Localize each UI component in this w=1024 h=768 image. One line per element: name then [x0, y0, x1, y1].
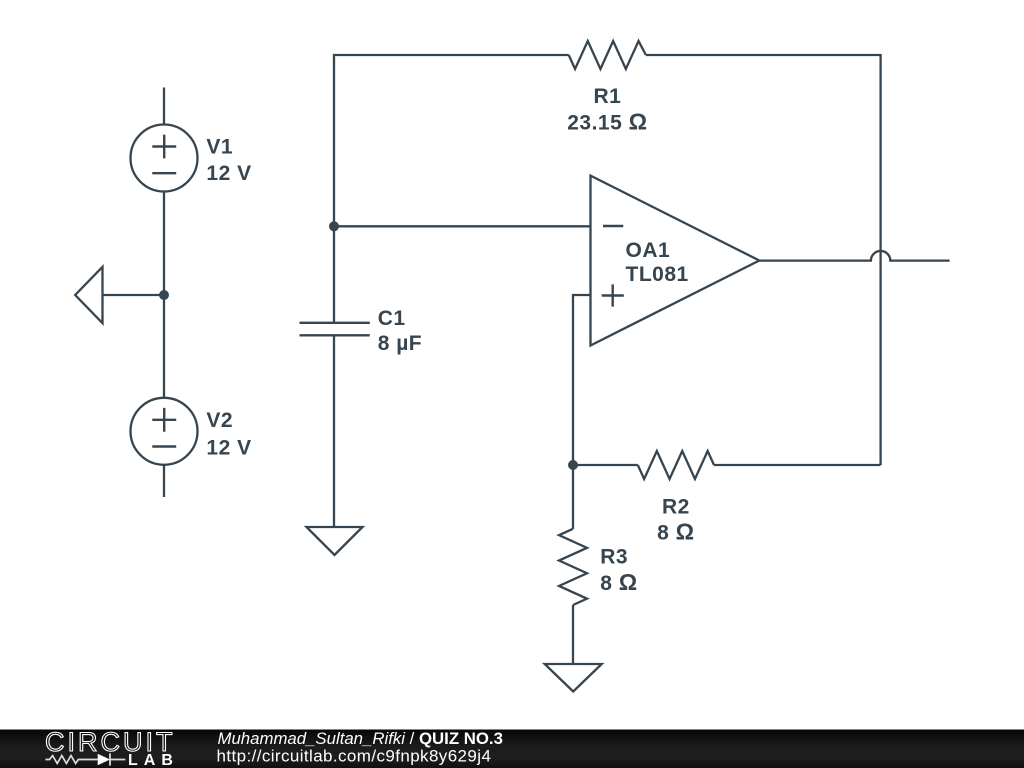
node flag arrow (left pointer): [75, 267, 102, 323]
wire V1 bottom to V2 top: [163, 192, 165, 398]
svg-text:OA1: OA1: [626, 239, 671, 262]
wire C1 to ground: [333, 336, 335, 527]
svg-text:8 µF: 8 µF: [378, 332, 422, 355]
svg-text:12 V: 12 V: [206, 436, 251, 459]
resistor R1: [569, 41, 646, 69]
svg-text:23.15 Ω: 23.15 Ω: [567, 109, 647, 135]
svg-text:R3: R3: [600, 545, 628, 568]
op-amp minus symbol: [603, 225, 623, 227]
wire node A to flag arrow: [103, 294, 165, 296]
footer bar: [0, 730, 1024, 768]
op-amp plus symbol: [602, 284, 624, 306]
svg-text:Muhammad_Sultan_Rifki / QUIZ N: Muhammad_Sultan_Rifki / QUIZ NO.3: [218, 729, 503, 748]
svg-text:8 Ω: 8 Ω: [600, 569, 637, 595]
CircuitLab logo resistor zigzag: [45, 756, 97, 764]
svg-text:C1: C1: [378, 307, 406, 330]
svg-text:R1: R1: [593, 85, 621, 108]
wire R2 to node B: [573, 464, 638, 466]
wire stub above V1: [163, 88, 165, 125]
wire R1 to right rail, down to R2 level: [646, 55, 881, 465]
svg-text:R2: R2: [662, 495, 690, 518]
svg-text:12 V: 12 V: [206, 162, 251, 185]
wire op-amp plus input down to node B: [573, 295, 591, 465]
capacitor C1 plates: [300, 323, 370, 336]
voltage source V2: [131, 398, 198, 465]
wire node B to R3: [572, 465, 574, 529]
ground under C1: [307, 527, 363, 555]
node A junction dot: [159, 290, 169, 300]
svg-text:V1: V1: [206, 135, 233, 158]
resistor R3: [559, 529, 587, 605]
voltage source V1: [131, 125, 198, 192]
node C junction dot: [329, 221, 339, 231]
node B junction dot: [568, 460, 578, 470]
svg-text:LAB: LAB: [128, 752, 179, 768]
wire right rail to R2: [714, 464, 881, 466]
svg-text:http://circuitlab.com/c9fnpk8y: http://circuitlab.com/c9fnpk8y629j4: [217, 747, 492, 766]
wire R3 to ground: [572, 605, 574, 664]
wire stub below V2: [163, 465, 165, 497]
wire node C down to C1: [333, 226, 335, 321]
wire node C up and right to R1: [334, 55, 569, 226]
CircuitLab logo diode: [98, 754, 110, 765]
svg-text:TL081: TL081: [626, 263, 689, 286]
ground under R3: [545, 664, 602, 692]
op-amp output wire with hop over right rail: [759, 251, 949, 261]
svg-text:V2: V2: [206, 409, 233, 432]
wire node C to op-amp minus input: [334, 225, 591, 227]
op-amp OA1 body: [591, 176, 760, 346]
resistor R2: [638, 451, 714, 479]
svg-text:8 Ω: 8 Ω: [657, 518, 694, 544]
